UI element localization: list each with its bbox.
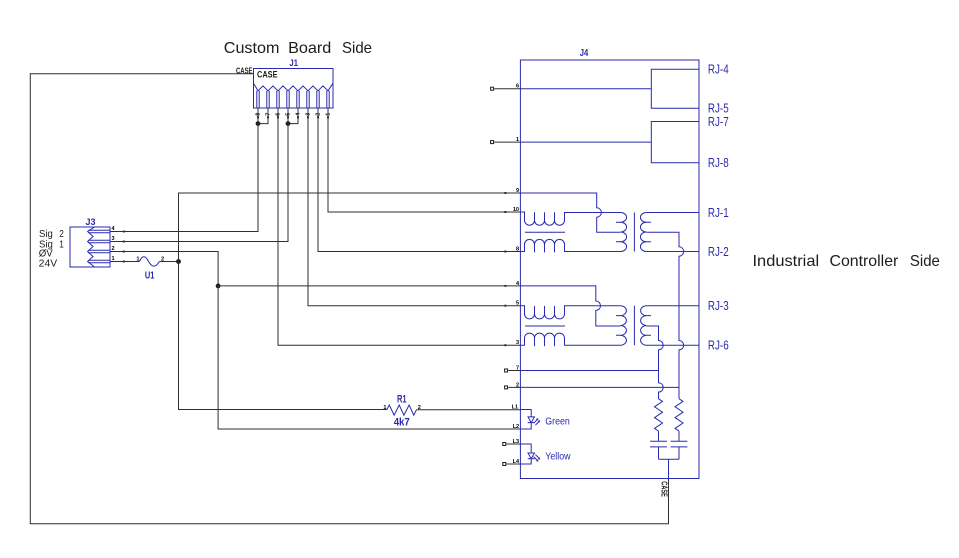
- upper transformer primary winding: [616, 213, 627, 252]
- wire RJ-3 net: [646, 305, 699, 307]
- svg-text:24V: 24V: [39, 258, 58, 269]
- wire J1 pin3 to J4 pin5: [308, 108, 520, 306]
- junction 0V net: [216, 284, 221, 289]
- J4 pin 6 stub: [491, 84, 521, 91]
- svg-text:Industrial: Industrial: [753, 253, 820, 270]
- LED Green symbol: [528, 417, 541, 425]
- svg-text:RJ-8: RJ-8: [708, 156, 729, 170]
- capacitor (lower): [650, 431, 667, 459]
- svg-text:RJ-5: RJ-5: [708, 102, 729, 116]
- svg-text:Yellow: Yellow: [545, 451, 571, 463]
- svg-text:Green: Green: [545, 416, 570, 428]
- svg-text:CASE: CASE: [257, 70, 278, 80]
- svg-text:Controller: Controller: [830, 253, 899, 270]
- wire 24V net to J4 pin9: [179, 193, 521, 262]
- svg-text:L4: L4: [513, 459, 520, 465]
- upper choke top winding (pin10): [520, 212, 620, 225]
- wire lower secondary tap down to resistor (hops RJ-6, pin2 wire): [646, 326, 663, 399]
- fuse U1: [140, 257, 160, 266]
- wire J1 pin6 to J4 pin3: [278, 108, 520, 345]
- svg-text:8: 8: [516, 247, 519, 253]
- connector J1: [254, 58, 334, 108]
- resistor R1: [387, 405, 417, 415]
- wire J1 pin7 to pin8: [258, 108, 268, 124]
- svg-text:Board: Board: [288, 40, 331, 57]
- svg-text:RJ-3: RJ-3: [708, 299, 729, 313]
- svg-text:6: 6: [516, 84, 519, 90]
- svg-text:1: 1: [516, 137, 519, 143]
- svg-text:2: 2: [516, 382, 519, 388]
- lower choke top winding (pin5): [520, 306, 620, 319]
- wire caps join to CASE: [659, 459, 680, 478]
- wire 24V net down to R1: [179, 262, 387, 410]
- svg-text:RJ-7: RJ-7: [708, 115, 729, 129]
- J4 pin 7 stub: [505, 366, 521, 373]
- svg-text:CASE: CASE: [236, 66, 253, 75]
- svg-text:R1: R1: [397, 394, 407, 406]
- wire J4 pin9 to upper transformer tap (with hop): [520, 193, 620, 232]
- connector J3: [70, 217, 110, 267]
- svg-text:RJ-1: RJ-1: [708, 206, 729, 220]
- svg-text:7: 7: [516, 366, 519, 372]
- upper choke bottom winding (pin8): [520, 239, 620, 252]
- junction 24V net: [176, 259, 181, 264]
- J4 pin 1 stub: [491, 137, 521, 144]
- svg-text:1: 1: [112, 256, 115, 262]
- wire 0V net: J3 pin2 down to junction: [110, 252, 218, 286]
- J1 pin numbers 8 7 6 5 4 3 2 1: [256, 112, 332, 116]
- svg-text:L2: L2: [513, 424, 519, 430]
- svg-text:Side: Side: [342, 40, 372, 57]
- svg-text:10: 10: [513, 207, 519, 213]
- J4 pin L3 stub: [503, 439, 521, 446]
- net J4 pin1 to RJ-7 / RJ-8: [520, 122, 699, 163]
- wire RJ-6 net: [646, 344, 699, 346]
- pin end tick marks: [123, 116, 507, 346]
- LED Green wiring: [520, 410, 531, 430]
- lower transformer primary winding: [616, 306, 626, 346]
- svg-text:J4: J4: [580, 48, 589, 59]
- svg-text:2: 2: [112, 246, 115, 252]
- svg-text:RJ-4: RJ-4: [708, 63, 729, 77]
- lower transformer secondary winding: [641, 306, 651, 346]
- wire 0V net to J4 pin L2: [218, 286, 520, 429]
- LED Yellow wiring: [520, 444, 531, 464]
- J3 pin numbers 4 3 2 1: [112, 226, 116, 262]
- wire J1 pin1 to J4 pin10: [328, 108, 520, 212]
- svg-text:J1: J1: [290, 58, 299, 69]
- net J4 pin6 to RJ-4 / RJ-5: [520, 69, 699, 108]
- wire R1 to J4 pin L1: [417, 409, 521, 411]
- svg-text:J3: J3: [86, 217, 96, 228]
- wire 24V net: J3 pin1 to fuse: [110, 261, 140, 263]
- svg-text:CASE: CASE: [660, 481, 669, 497]
- svg-text:3: 3: [516, 340, 519, 346]
- upper transformer secondary winding: [640, 213, 651, 252]
- resistor (lower tap termination): [655, 399, 663, 431]
- wire J4 pin7 net: [520, 370, 658, 372]
- resistor (upper tap termination): [675, 399, 683, 431]
- svg-text:1: 1: [59, 239, 64, 250]
- svg-text:Side: Side: [910, 253, 940, 270]
- svg-text:9: 9: [516, 188, 519, 194]
- wire 0V net to J4 pin4: [218, 285, 520, 287]
- lower choke bottom winding (pin3): [520, 333, 620, 346]
- wire J1 pin2 to J4 pin8: [318, 108, 520, 252]
- J4 pin L4 stub: [503, 459, 521, 466]
- svg-text:L3: L3: [513, 439, 519, 445]
- wire upper secondary tap down to resistor (hops RJ-2, RJ-6): [646, 232, 683, 398]
- svg-text:L1: L1: [512, 405, 518, 411]
- wire RJ-1 net: [646, 212, 699, 214]
- upper transformer core: [633, 213, 635, 252]
- LED Yellow symbol: [528, 453, 541, 462]
- wire CASE net (border loop): [30, 74, 668, 524]
- svg-text:5: 5: [516, 301, 519, 307]
- svg-text:4k7: 4k7: [394, 416, 410, 428]
- junction J1 pins 7-8: [256, 121, 261, 126]
- connector J4: [520, 60, 699, 479]
- svg-text:RJ-6: RJ-6: [708, 339, 729, 353]
- wire Sig1 net: J3 pin3 to J1 pin5: [110, 108, 288, 242]
- upper choke core: [525, 231, 565, 233]
- J4 pin 2 stub: [505, 382, 521, 389]
- wire Sig2 net: J3 pin4 to J1 pin8: [110, 108, 258, 232]
- wire fuse to 24V junction: [159, 261, 178, 263]
- wire J4 pin2 net: [520, 386, 679, 388]
- lower transformer core: [633, 306, 635, 346]
- svg-text:U1: U1: [145, 270, 155, 282]
- wire J4 pin4 to lower transformer tap (with hop): [520, 286, 620, 326]
- svg-text:1: 1: [383, 405, 386, 411]
- junction J1 pins 4-5: [286, 121, 291, 126]
- svg-text:3: 3: [112, 236, 115, 242]
- svg-text:1: 1: [136, 256, 139, 262]
- lower choke core: [525, 325, 565, 327]
- wire RJ-2 net: [646, 251, 699, 253]
- wire J1 pin4 to pin5: [288, 108, 298, 124]
- svg-text:RJ-2: RJ-2: [708, 245, 729, 259]
- capacitor (upper): [671, 431, 688, 459]
- svg-text:Custom: Custom: [224, 40, 280, 57]
